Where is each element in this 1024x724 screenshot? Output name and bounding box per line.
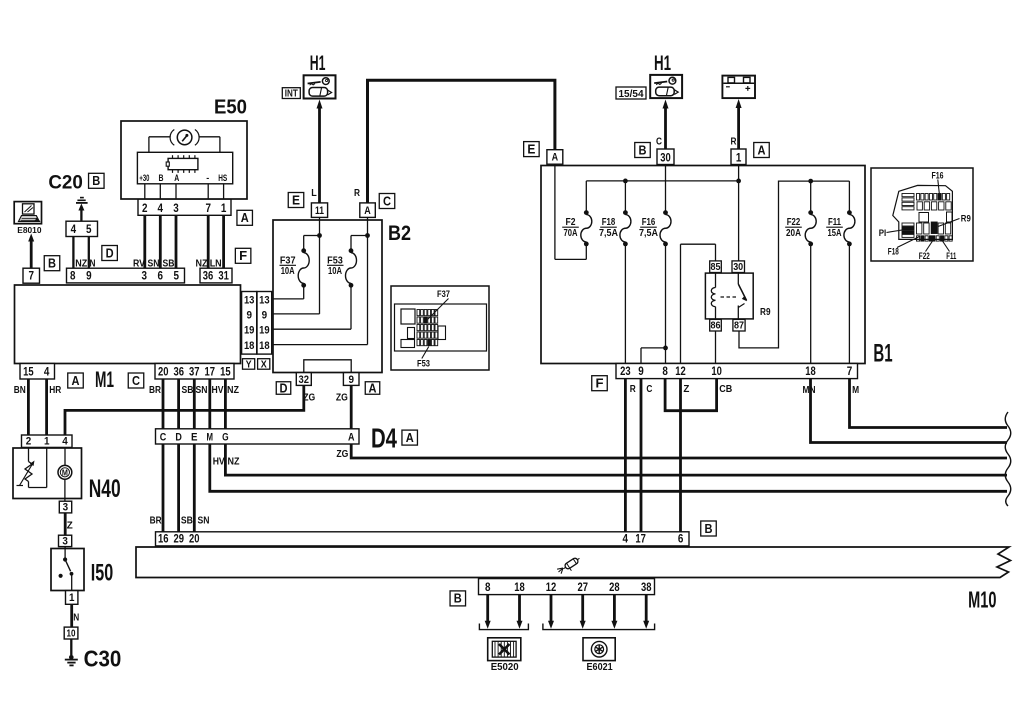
svg-text:N: N: [90, 258, 96, 270]
svg-text:CB: CB: [719, 383, 732, 395]
svg-text:15: 15: [23, 367, 34, 379]
svg-text:E: E: [191, 432, 198, 444]
svg-text:7: 7: [205, 201, 211, 215]
svg-text:B1: B1: [873, 340, 892, 368]
svg-text:31: 31: [218, 271, 229, 283]
svg-text:37: 37: [189, 367, 200, 379]
svg-text:R9: R9: [760, 307, 771, 318]
svg-text:5: 5: [174, 271, 180, 283]
svg-text:Z: Z: [67, 519, 74, 531]
svg-text:E: E: [292, 193, 300, 207]
svg-text:12: 12: [675, 366, 686, 378]
svg-text:1: 1: [69, 592, 75, 604]
svg-text:C20: C20: [48, 173, 83, 194]
svg-text:86: 86: [711, 320, 721, 332]
svg-text:N: N: [73, 611, 79, 623]
svg-text:18: 18: [244, 340, 255, 352]
svg-text:6: 6: [678, 534, 684, 546]
svg-text:32: 32: [299, 374, 310, 386]
svg-text:Z: Z: [683, 383, 690, 395]
svg-text:5: 5: [86, 222, 92, 236]
svg-text:F11: F11: [828, 217, 841, 228]
svg-text:9: 9: [638, 366, 644, 378]
svg-text:SB: SB: [181, 514, 193, 526]
svg-text:9: 9: [246, 310, 252, 322]
svg-text:HS: HS: [218, 173, 227, 183]
svg-text:F16: F16: [932, 170, 944, 180]
svg-text:16: 16: [158, 534, 169, 546]
svg-text:23: 23: [620, 366, 631, 378]
svg-text:ZG: ZG: [336, 448, 348, 460]
svg-text:9: 9: [262, 310, 268, 322]
svg-text:15/54: 15/54: [619, 88, 644, 100]
svg-text:4: 4: [44, 367, 50, 379]
svg-text:SB: SB: [182, 384, 194, 396]
svg-text:H1: H1: [654, 52, 671, 75]
svg-text:SN: SN: [148, 258, 160, 270]
svg-text:I50: I50: [91, 560, 113, 587]
svg-text:10: 10: [711, 366, 722, 378]
svg-text:F22: F22: [787, 217, 801, 228]
svg-text:27: 27: [577, 582, 588, 594]
svg-text:R9: R9: [961, 213, 971, 223]
svg-text:A: A: [406, 431, 414, 445]
svg-text:1: 1: [44, 436, 50, 448]
svg-text:LN: LN: [210, 258, 222, 270]
svg-text:M: M: [62, 469, 68, 478]
svg-text:4: 4: [71, 222, 77, 236]
svg-text:SN: SN: [196, 384, 208, 396]
svg-text:B: B: [159, 173, 164, 183]
svg-text:18: 18: [514, 582, 525, 594]
svg-text:18: 18: [259, 340, 270, 352]
svg-text:36: 36: [203, 271, 214, 283]
svg-text:17: 17: [635, 534, 646, 546]
svg-text:17: 17: [205, 367, 216, 379]
svg-text:G: G: [222, 432, 229, 444]
svg-text:9: 9: [348, 374, 354, 386]
svg-text:HV: HV: [213, 455, 225, 467]
svg-text:F2: F2: [566, 217, 576, 228]
svg-text:12: 12: [546, 582, 557, 594]
svg-text:MN: MN: [803, 384, 816, 396]
svg-text:NZ: NZ: [75, 258, 87, 270]
svg-text:NZ: NZ: [228, 455, 240, 467]
svg-text:Y: Y: [246, 359, 252, 370]
svg-text:M: M: [852, 384, 859, 396]
svg-text:3: 3: [62, 535, 68, 547]
svg-text:E6021: E6021: [587, 662, 614, 673]
svg-text:INT: INT: [285, 89, 298, 100]
svg-text:SB: SB: [163, 258, 175, 270]
svg-text:BN: BN: [14, 384, 26, 396]
svg-text:F53: F53: [417, 359, 430, 370]
svg-text:B: B: [92, 174, 100, 188]
svg-text:B: B: [454, 592, 462, 606]
svg-text:1: 1: [221, 201, 227, 215]
svg-text:X: X: [261, 359, 267, 370]
svg-text:7: 7: [28, 271, 34, 283]
svg-text:13: 13: [259, 294, 270, 306]
svg-text:8: 8: [485, 582, 491, 594]
svg-text:SN: SN: [198, 514, 210, 526]
svg-text:20: 20: [158, 367, 169, 379]
svg-text:20A: 20A: [786, 228, 801, 239]
svg-text:A: A: [364, 205, 371, 217]
svg-text:B2: B2: [388, 222, 411, 245]
svg-text:10A: 10A: [281, 265, 295, 277]
svg-text:F18: F18: [888, 247, 899, 257]
svg-text:29: 29: [174, 534, 185, 546]
svg-text:NZ: NZ: [227, 384, 239, 396]
svg-text:3: 3: [63, 501, 69, 513]
svg-text:6: 6: [158, 271, 164, 283]
svg-text:E8010: E8010: [17, 225, 41, 235]
svg-text:B: B: [705, 522, 713, 536]
svg-text:10: 10: [67, 629, 76, 640]
svg-text:M10: M10: [968, 587, 996, 613]
svg-text:RV: RV: [133, 258, 145, 270]
svg-text:M: M: [207, 432, 214, 444]
svg-text:36: 36: [174, 367, 185, 379]
svg-text:B: B: [48, 257, 56, 271]
svg-text:R: R: [354, 187, 360, 199]
svg-text:A: A: [758, 143, 766, 157]
svg-text:3: 3: [173, 201, 179, 215]
svg-text:C: C: [646, 383, 652, 395]
svg-text:4: 4: [158, 201, 164, 215]
svg-text:C: C: [383, 194, 391, 208]
svg-text:7,5A: 7,5A: [639, 228, 658, 239]
svg-text:13: 13: [244, 294, 255, 306]
svg-text:ZG: ZG: [336, 391, 348, 403]
svg-text:19: 19: [259, 325, 270, 337]
svg-text:4: 4: [62, 436, 68, 448]
svg-text:HV: HV: [212, 384, 224, 396]
svg-text:A: A: [72, 374, 80, 388]
svg-text:A: A: [369, 381, 377, 395]
svg-text:19: 19: [244, 325, 255, 337]
svg-text:7,5A: 7,5A: [599, 228, 618, 239]
svg-text:2: 2: [26, 436, 32, 448]
svg-text:N40: N40: [89, 475, 121, 503]
svg-text:+30: +30: [139, 173, 149, 183]
svg-text:85: 85: [711, 261, 721, 273]
svg-text:8: 8: [662, 366, 668, 378]
svg-text:C: C: [656, 136, 662, 148]
svg-text:4: 4: [623, 534, 629, 546]
svg-text:NZ: NZ: [196, 258, 208, 270]
svg-text:F16: F16: [642, 217, 656, 228]
svg-text:R: R: [630, 383, 636, 395]
svg-text:9: 9: [86, 271, 92, 283]
svg-text:E50: E50: [214, 97, 247, 119]
svg-text:E5020: E5020: [491, 662, 519, 673]
svg-text:28: 28: [609, 582, 620, 594]
svg-text:M1: M1: [95, 367, 114, 392]
svg-text:A: A: [174, 173, 179, 183]
svg-text:F18: F18: [602, 217, 616, 228]
svg-text:B: B: [639, 143, 647, 157]
svg-text:2: 2: [142, 201, 148, 215]
svg-text:H1: H1: [310, 52, 326, 75]
svg-text:A: A: [348, 432, 355, 444]
svg-text:1: 1: [736, 153, 742, 165]
svg-text:15: 15: [220, 367, 231, 379]
svg-text:10A: 10A: [328, 265, 342, 277]
svg-text:7: 7: [847, 366, 853, 378]
svg-text:ZG: ZG: [303, 391, 315, 403]
svg-text:F11: F11: [946, 251, 956, 261]
svg-text:F: F: [596, 377, 604, 391]
svg-text:87: 87: [734, 320, 744, 332]
svg-text:D4: D4: [371, 423, 397, 454]
svg-text:11: 11: [315, 205, 324, 217]
svg-text:HR: HR: [49, 384, 61, 396]
svg-text:C: C: [132, 374, 140, 388]
svg-text:15A: 15A: [828, 228, 842, 239]
svg-text:F: F: [239, 249, 247, 263]
svg-text:-: -: [206, 173, 209, 183]
svg-text:D: D: [106, 246, 114, 260]
svg-text:8: 8: [70, 271, 76, 283]
svg-text:C: C: [160, 432, 167, 444]
svg-text:30: 30: [660, 153, 671, 165]
svg-text:20: 20: [189, 534, 200, 546]
svg-text:BR: BR: [150, 514, 162, 526]
svg-text:BR: BR: [149, 384, 161, 396]
svg-text:18: 18: [805, 366, 816, 378]
svg-text:30: 30: [733, 261, 743, 273]
svg-text:38: 38: [641, 582, 652, 594]
svg-text:F22: F22: [919, 251, 930, 261]
svg-text:D: D: [280, 381, 288, 395]
svg-text:E: E: [527, 142, 535, 156]
svg-text:70A: 70A: [564, 228, 578, 239]
svg-text:A: A: [241, 211, 249, 225]
svg-text:D: D: [175, 432, 182, 444]
svg-text:L: L: [311, 187, 317, 199]
svg-text:A: A: [552, 152, 559, 164]
svg-text:R: R: [731, 136, 737, 148]
svg-text:PI: PI: [879, 228, 887, 238]
svg-text:3: 3: [142, 271, 148, 283]
svg-text:C30: C30: [84, 646, 122, 672]
